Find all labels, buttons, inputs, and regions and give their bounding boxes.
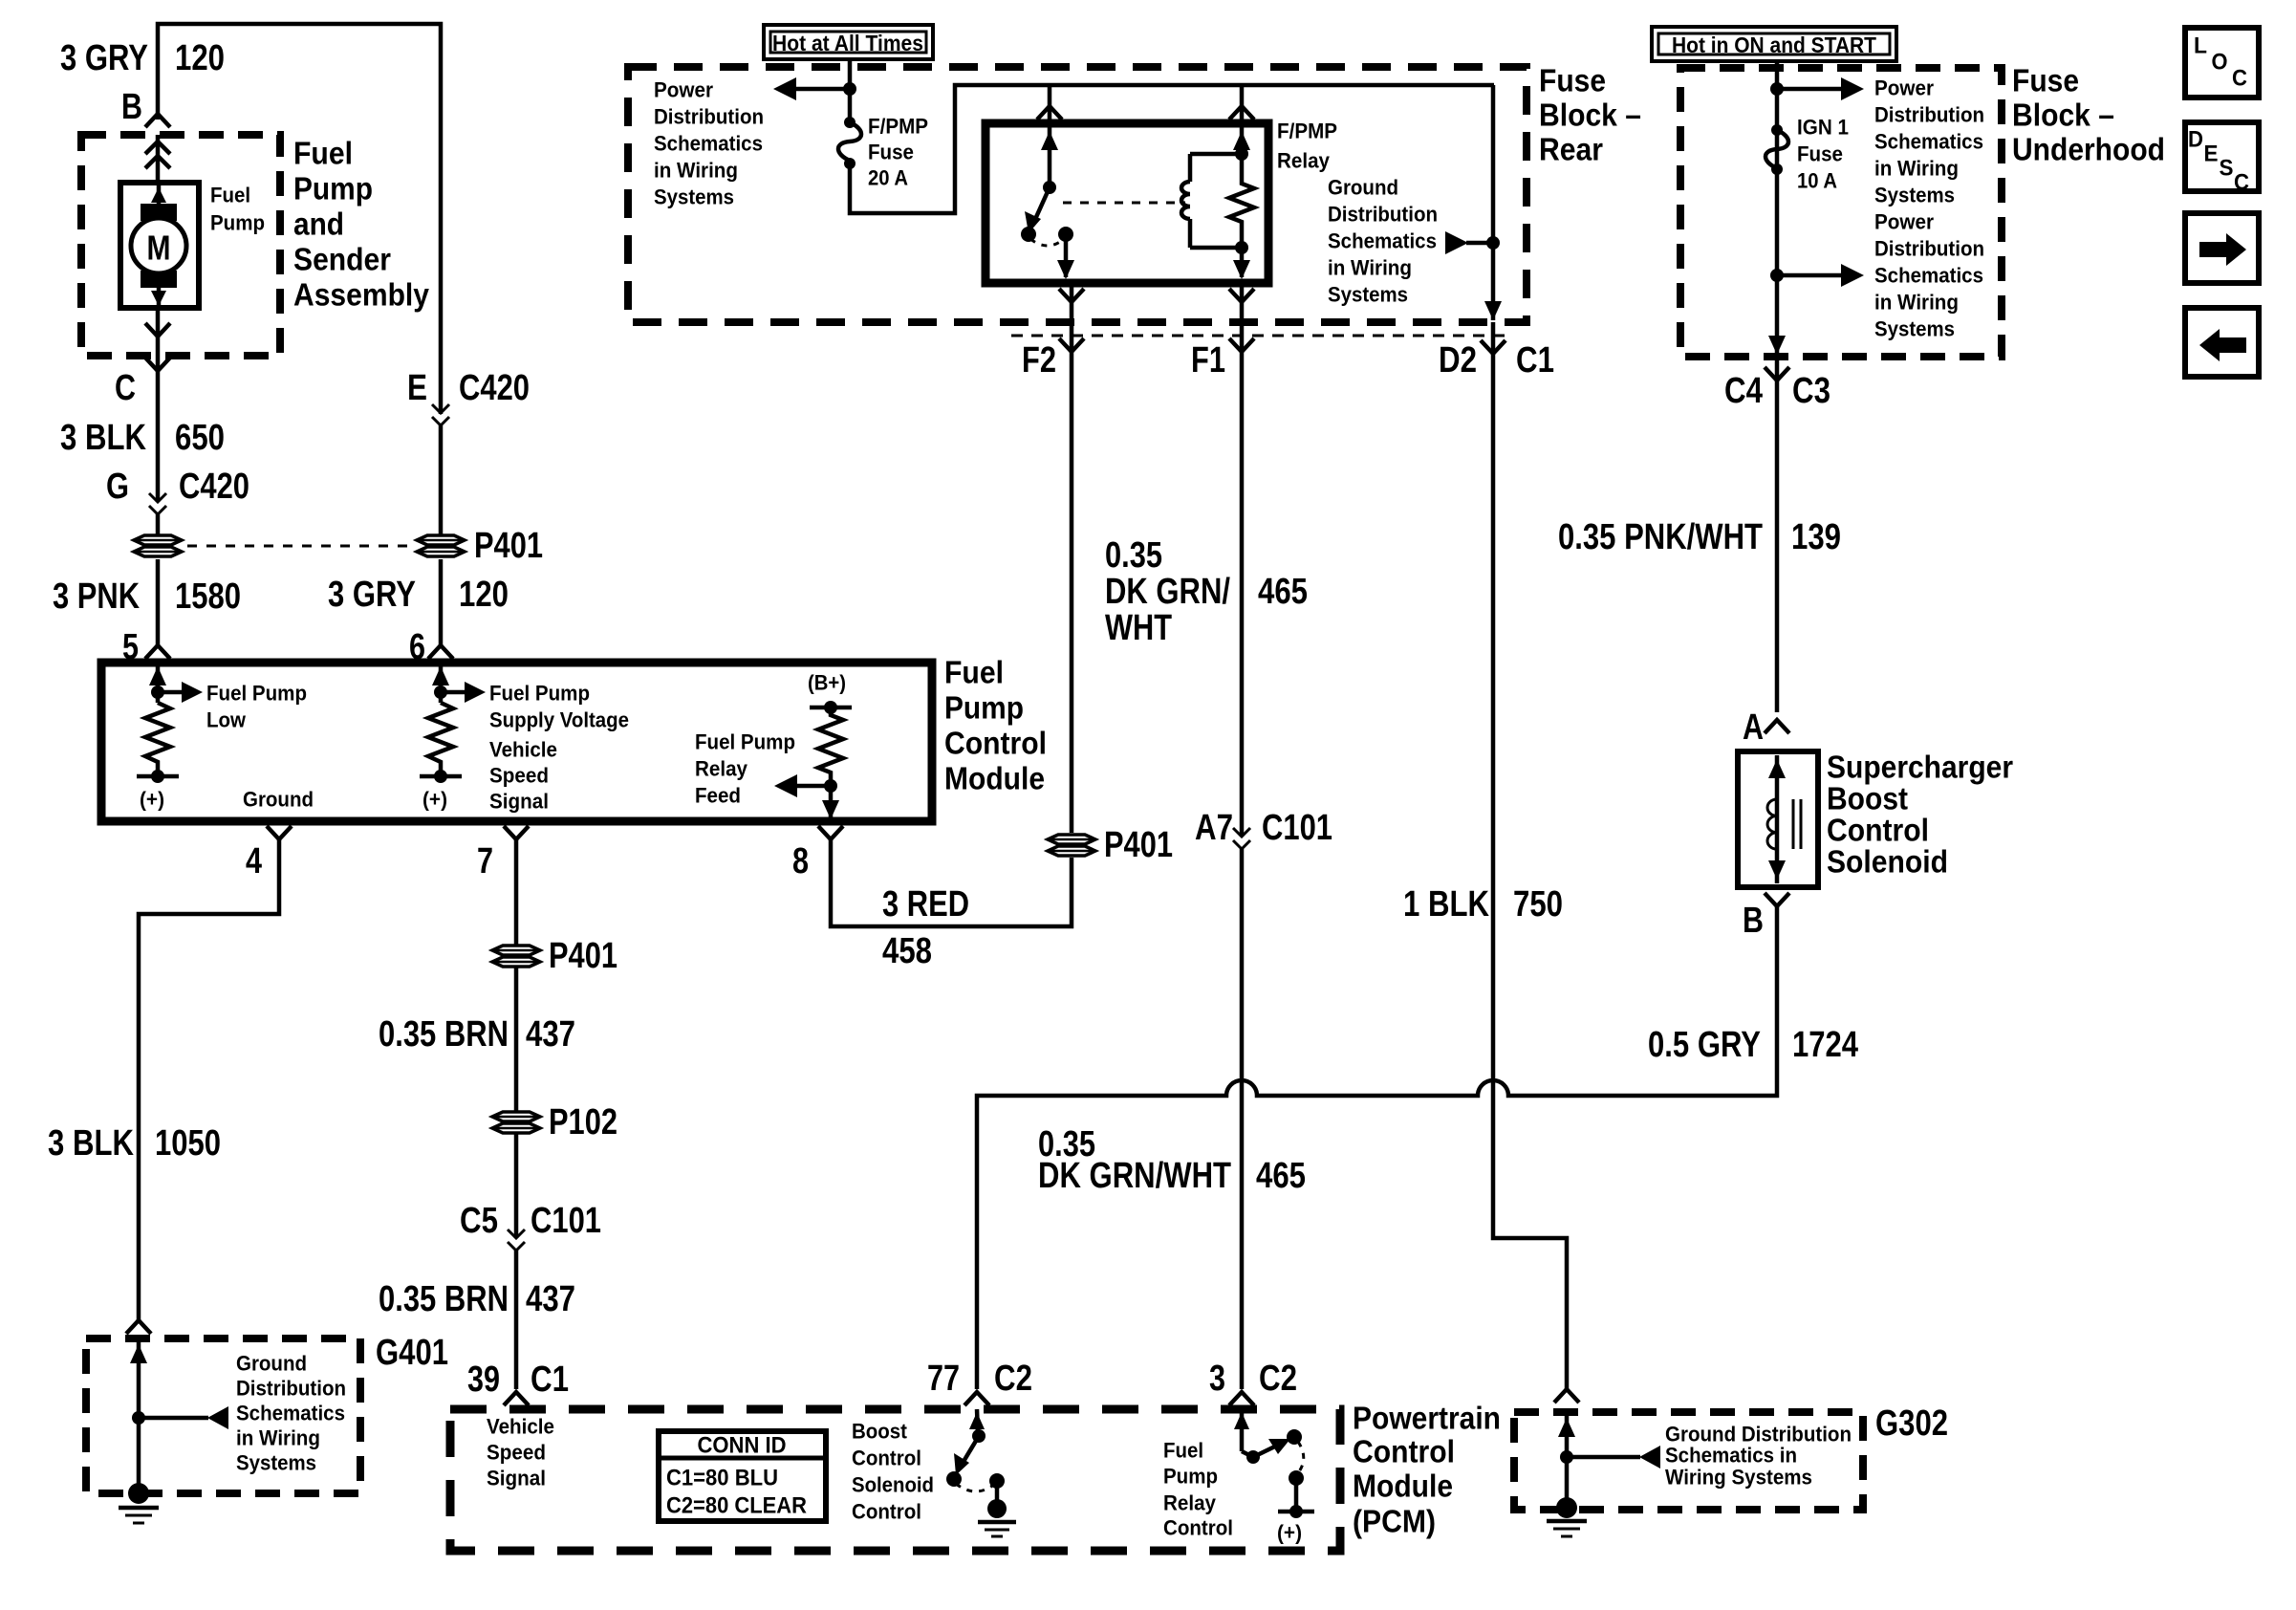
label 0.35 BRN lower	[379, 1279, 509, 1319]
svg-text:Pump: Pump	[1163, 1465, 1218, 1489]
fuse IGN 1 10 A	[1765, 124, 1788, 175]
dashed pair link	[187, 545, 415, 548]
svg-text:Power: Power	[1874, 210, 1934, 234]
svg-text:C2=80 CLEAR: C2=80 CLEAR	[666, 1493, 807, 1519]
svg-text:Distribution: Distribution	[236, 1377, 346, 1401]
relay coil feed pin	[1229, 85, 1254, 154]
svg-text:Low: Low	[206, 708, 247, 732]
connector P102	[492, 1112, 540, 1133]
svg-text:8: 8	[792, 841, 809, 881]
arrow to ground distribution (G302)	[1560, 1446, 1660, 1469]
svg-text:Power: Power	[654, 78, 713, 102]
wire into pump with connector chevrons	[145, 135, 170, 183]
svg-text:G401: G401	[376, 1333, 448, 1373]
svg-text:Fuse: Fuse	[1797, 142, 1843, 166]
svg-text:Boost: Boost	[1827, 781, 1908, 816]
svg-text:Pump: Pump	[944, 690, 1024, 726]
svg-text:1050: 1050	[155, 1123, 221, 1164]
svg-text:P401: P401	[474, 526, 543, 566]
svg-text:Fuse: Fuse	[868, 141, 914, 164]
pin F1	[1191, 283, 1254, 402]
wire 0.35 DK GRN/WHT 465 F1 to PCM 3	[1240, 402, 1245, 1389]
svg-text:(B+): (B+)	[808, 671, 846, 695]
fuse block underhood dashed box	[1680, 68, 2002, 357]
svg-text:Speed: Speed	[489, 764, 549, 788]
svg-text:Relay: Relay	[1277, 149, 1331, 173]
svg-text:D2: D2	[1439, 340, 1477, 381]
wire 3 GRY 120 circuit B (left vertical + top loop to E)	[158, 24, 441, 414]
pin 5 fuel pump low resistor	[137, 663, 203, 812]
label F/PMP Relay	[1277, 120, 1337, 173]
svg-text:39: 39	[467, 1360, 500, 1400]
fuse F/PMP 20 A	[838, 117, 861, 169]
svg-text:Vehicle: Vehicle	[487, 1415, 554, 1439]
wire out of pump	[145, 308, 170, 502]
label 120	[459, 575, 509, 615]
ground G302 dashed box	[1514, 1412, 1863, 1510]
label Ground Distribution Schematics in Wiring Systems (G302)	[1665, 1423, 1852, 1490]
label Fuse Block - Rear	[1539, 63, 1641, 167]
svg-text:C1=80 BLU: C1=80 BLU	[666, 1466, 778, 1491]
svg-text:P102: P102	[549, 1102, 617, 1142]
svg-text:C4: C4	[1724, 371, 1763, 411]
node G C420	[106, 467, 249, 535]
svg-text:Module: Module	[944, 761, 1045, 796]
svg-text:1580: 1580	[175, 577, 241, 617]
svg-text:and: and	[293, 207, 344, 242]
label 3 RED	[882, 884, 969, 925]
svg-text:0.35: 0.35	[1105, 535, 1162, 576]
label Fuel Pump Relay Control	[1163, 1439, 1233, 1540]
back arrow icon box	[2185, 308, 2259, 377]
motor M symbol	[131, 183, 186, 308]
svg-text:Signal: Signal	[489, 790, 549, 814]
label 0.35 DK GRN/WHT lower	[1038, 1124, 1231, 1196]
svg-text:Fuel: Fuel	[293, 136, 353, 171]
svg-text:650: 650	[175, 418, 225, 458]
svg-text:Sender: Sender	[293, 242, 391, 277]
svg-text:B: B	[1743, 901, 1764, 941]
arrow to power distribution 2	[1770, 264, 1864, 287]
label 650	[175, 418, 225, 458]
forward arrow icon box	[2185, 213, 2259, 283]
Hot at All Times callout	[764, 25, 933, 59]
svg-text:C2: C2	[1259, 1359, 1297, 1399]
svg-text:Powertrain: Powertrain	[1353, 1401, 1501, 1436]
svg-text:Distribution: Distribution	[654, 105, 764, 129]
node C5 C101	[460, 1201, 601, 1251]
fuse block rear dashed box	[628, 67, 1527, 322]
svg-text:3 BLK: 3 BLK	[48, 1123, 134, 1164]
wire 3 RED 458 pin8 to relay F2	[831, 402, 1072, 926]
label 458	[882, 931, 932, 971]
svg-text:Systems: Systems	[654, 185, 734, 209]
svg-text:120: 120	[175, 38, 225, 78]
svg-text:465: 465	[1258, 572, 1308, 612]
LOC icon box	[2185, 28, 2259, 98]
relay switch arm	[1021, 181, 1056, 242]
svg-text:Hot at All Times: Hot at All Times	[772, 31, 923, 55]
fuel pump relay driver	[1234, 1409, 1314, 1545]
node B connector	[121, 87, 170, 127]
connector dashed line below fuse block	[1011, 335, 1510, 337]
label Ground Distribution Schematics in Wiring Systems	[1328, 176, 1438, 307]
svg-text:Distribution: Distribution	[1328, 203, 1438, 227]
svg-text:in Wiring: in Wiring	[236, 1426, 320, 1450]
label 1050	[155, 1123, 221, 1164]
pin 6 supply voltage resistor	[420, 663, 486, 812]
svg-text:139: 139	[1791, 517, 1841, 557]
label G302	[1875, 1403, 1948, 1444]
label Supercharger Boost Control Solenoid	[1827, 750, 2013, 880]
svg-text:458: 458	[882, 931, 932, 971]
label Fuel Pump Low	[206, 682, 307, 732]
boost control solenoid driver	[946, 1409, 1016, 1536]
svg-text:D: D	[2188, 127, 2203, 153]
wire ign feed	[1768, 61, 1786, 355]
relay coil link dashed	[1063, 202, 1185, 205]
svg-text:437: 437	[526, 1014, 575, 1055]
label P102	[549, 1102, 617, 1142]
svg-text:C1: C1	[1516, 340, 1554, 381]
wire 3 PNK 1580	[156, 559, 161, 646]
supercharger boost control solenoid box	[1738, 751, 1818, 887]
svg-text:F1: F1	[1191, 340, 1225, 381]
svg-text:Speed: Speed	[487, 1441, 546, 1465]
svg-text:Systems: Systems	[1874, 317, 1955, 341]
relay switch feed pin	[1037, 85, 1062, 187]
pin 3 C2	[1209, 1359, 1297, 1405]
wire 0.5 GRY 1724 solenoid B to PCM 77	[977, 906, 1777, 1389]
svg-text:Distribution: Distribution	[1874, 103, 1984, 127]
label 0.35 BRN upper	[379, 1014, 509, 1055]
wire 0.35 BRN 437 pin7 to PCM 39	[514, 839, 519, 1389]
wire D2 drop inside fuse block	[1484, 85, 1502, 320]
svg-text:Schematics in: Schematics in	[1665, 1444, 1797, 1468]
pin A	[1743, 707, 1789, 748]
svg-text:20 A: 20 A	[868, 166, 908, 190]
svg-text:Wiring Systems: Wiring Systems	[1665, 1466, 1812, 1490]
(B+) relay feed resistor	[774, 671, 852, 822]
svg-text:10 A: 10 A	[1797, 169, 1837, 193]
svg-text:465: 465	[1256, 1156, 1306, 1196]
svg-text:Supply Voltage: Supply Voltage	[489, 708, 629, 732]
svg-text:DK GRN/: DK GRN/	[1105, 572, 1230, 612]
label 3 PNK	[53, 577, 140, 617]
svg-text:437: 437	[526, 1279, 575, 1319]
svg-text:Underhood: Underhood	[2012, 132, 2165, 167]
label 3 BLK	[60, 418, 146, 458]
CONN ID table	[659, 1431, 826, 1521]
svg-text:C: C	[2232, 66, 2247, 92]
arrow to ground distribution (G401)	[132, 1406, 228, 1429]
pin 6	[409, 627, 453, 667]
svg-text:Schematics: Schematics	[1328, 229, 1437, 253]
label 437 upper	[526, 1014, 575, 1055]
relay coil output pin	[1233, 248, 1250, 279]
arrow to power distribution	[773, 77, 856, 100]
node into G401	[126, 1320, 151, 1493]
relay coil suppression resistor	[1229, 147, 1254, 254]
svg-text:120: 120	[459, 575, 509, 615]
ground symbol G302	[1547, 1497, 1587, 1536]
label 0.35 PNK/WHT	[1558, 517, 1763, 557]
pin C4 / C3	[1724, 357, 1830, 712]
svg-text:Boost: Boost	[852, 1420, 908, 1444]
svg-text:C3: C3	[1792, 371, 1830, 411]
label 750	[1513, 884, 1563, 925]
powertrain control module dashed box	[450, 1409, 1340, 1551]
svg-text:in Wiring: in Wiring	[1874, 291, 1959, 315]
svg-text:Control: Control	[852, 1500, 921, 1524]
wire 1 BLK 750 C1 to G302	[1493, 402, 1567, 1389]
svg-text:1724: 1724	[1792, 1025, 1858, 1065]
label Fuse Block - Underhood	[2012, 63, 2165, 167]
svg-text:Distribution: Distribution	[1874, 237, 1984, 261]
svg-text:Vehicle: Vehicle	[489, 738, 557, 762]
wire from hot feed	[848, 59, 853, 122]
svg-text:0.35 PNK/WHT: 0.35 PNK/WHT	[1558, 517, 1763, 557]
svg-text:WHT: WHT	[1105, 608, 1172, 648]
svg-text:Systems: Systems	[1328, 283, 1408, 307]
svg-text:F/PMP: F/PMP	[1277, 120, 1337, 143]
label F/PMP Fuse 20 A	[868, 115, 928, 190]
svg-text:Schematics: Schematics	[236, 1402, 345, 1425]
label P401	[549, 936, 617, 976]
svg-text:3 GRY: 3 GRY	[328, 575, 416, 615]
label G401	[376, 1333, 448, 1373]
svg-text:E: E	[407, 368, 427, 408]
svg-text:P401: P401	[1104, 825, 1173, 865]
svg-text:C1: C1	[531, 1360, 569, 1400]
svg-text:Block –: Block –	[2012, 98, 2114, 133]
svg-text:3 GRY: 3 GRY	[60, 38, 148, 78]
svg-text:Pump: Pump	[210, 211, 265, 235]
svg-text:C2: C2	[994, 1359, 1032, 1399]
label IGN 1 Fuse 10 A	[1797, 116, 1849, 193]
label Fuel Pump Relay Feed	[695, 730, 795, 808]
label Fuel Pump Supply Voltage	[489, 682, 629, 732]
node A7 C101	[1195, 808, 1332, 849]
fuel pump motor box	[120, 183, 199, 308]
ground G401 dashed box	[86, 1338, 360, 1493]
pin 8	[792, 826, 843, 881]
svg-text:0.5 GRY: 0.5 GRY	[1648, 1025, 1761, 1065]
svg-text:Solenoid: Solenoid	[1827, 844, 1948, 880]
svg-text:E: E	[2204, 141, 2219, 167]
svg-text:Ground: Ground	[1328, 176, 1398, 200]
svg-text:Fuse: Fuse	[2012, 63, 2079, 98]
label 120	[175, 38, 225, 78]
label 0.35 DK GRN/WHT upper	[1105, 535, 1230, 648]
svg-text:A7: A7	[1195, 808, 1233, 848]
label Power Distribution Schematics in Wiring Systems	[654, 78, 764, 209]
relay contact and dashed swing	[1030, 227, 1074, 279]
svg-text:Module: Module	[1353, 1469, 1453, 1504]
node into G302	[1554, 1389, 1579, 1508]
svg-text:L: L	[2194, 33, 2207, 59]
svg-text:Control: Control	[1163, 1516, 1233, 1540]
svg-text:G: G	[106, 467, 129, 507]
arrow ground distribution to D2 wire	[1445, 231, 1500, 254]
label Fuel Pump Control Module	[944, 655, 1047, 796]
label 3 GRY	[60, 38, 148, 78]
svg-text:Ground: Ground	[243, 788, 314, 812]
relay coil	[1181, 154, 1242, 248]
svg-text:Relay: Relay	[695, 757, 748, 781]
label Powertrain Control Module (PCM)	[1353, 1401, 1501, 1539]
svg-text:C101: C101	[531, 1201, 601, 1241]
label 0.5 GRY	[1648, 1025, 1761, 1065]
pin B	[1743, 893, 1789, 941]
svg-text:4: 4	[246, 841, 262, 881]
svg-text:Fuel Pump: Fuel Pump	[695, 730, 795, 754]
svg-text:Supercharger: Supercharger	[1827, 750, 2013, 785]
svg-text:Feed: Feed	[695, 784, 741, 808]
wire 3 GRY 120 lower	[439, 559, 444, 646]
svg-text:77: 77	[927, 1359, 960, 1399]
svg-text:F2: F2	[1022, 340, 1056, 381]
DESC icon box	[2185, 122, 2259, 196]
label P401	[474, 526, 543, 566]
svg-text:C: C	[2234, 170, 2249, 196]
wire 3 BLK 1050 pin4 to G401	[139, 839, 279, 1320]
svg-text:B: B	[121, 87, 142, 127]
svg-text:Fuel: Fuel	[210, 184, 250, 207]
svg-text:(PCM): (PCM)	[1353, 1504, 1436, 1539]
label P401	[1104, 825, 1173, 865]
connector P401 (speed signal)	[492, 946, 540, 967]
label Boost Control Solenoid Control	[852, 1420, 934, 1524]
pin 4	[246, 826, 292, 881]
label 1724	[1792, 1025, 1858, 1065]
label 3 BLK	[48, 1123, 134, 1164]
ground symbol G401	[119, 1483, 159, 1523]
svg-text:3 BLK: 3 BLK	[60, 418, 146, 458]
svg-text:Fuel: Fuel	[1163, 1439, 1203, 1463]
label 1 BLK	[1403, 884, 1489, 925]
svg-text:Fuel Pump: Fuel Pump	[489, 682, 590, 706]
svg-text:G302: G302	[1875, 1403, 1948, 1444]
svg-text:0.35 BRN: 0.35 BRN	[379, 1279, 509, 1319]
svg-text:C420: C420	[459, 368, 530, 408]
label Vehicle Speed Signal	[489, 738, 557, 814]
svg-text:C420: C420	[179, 467, 249, 507]
svg-text:(+): (+)	[422, 788, 447, 812]
connector P401 left half	[134, 535, 182, 556]
svg-text:Fuel: Fuel	[944, 655, 1004, 690]
pin 77 C2	[927, 1359, 1032, 1405]
svg-text:Control: Control	[852, 1447, 921, 1470]
label 3 GRY	[328, 575, 416, 615]
Hot in ON and START callout	[1652, 27, 1896, 61]
svg-text:Fuel Pump: Fuel Pump	[206, 682, 307, 706]
svg-text:Assembly: Assembly	[293, 277, 430, 313]
label 465 lower	[1256, 1156, 1306, 1196]
label 437 lower	[526, 1279, 575, 1319]
svg-text:CONN ID: CONN ID	[698, 1433, 787, 1459]
pin D2 / C1	[1439, 322, 1554, 402]
connector P401 right half	[417, 535, 465, 556]
label 139	[1791, 517, 1841, 557]
svg-text:(+): (+)	[140, 788, 164, 812]
svg-text:(+): (+)	[1277, 1521, 1302, 1545]
label Fuel Pump and Sender Assembly	[293, 136, 430, 313]
svg-text:C5: C5	[460, 1201, 498, 1241]
svg-text:Control: Control	[1827, 813, 1929, 848]
pin F2	[1022, 283, 1084, 402]
svg-text:3: 3	[1209, 1359, 1225, 1399]
svg-text:in Wiring: in Wiring	[1328, 256, 1412, 280]
label 1580	[175, 577, 241, 617]
fuel pump and sender assembly dashed box	[81, 135, 280, 356]
svg-text:F/PMP: F/PMP	[868, 115, 928, 139]
label Vehicle Speed Signal (PCM)	[487, 1415, 554, 1490]
arrow to power distribution 1	[1770, 77, 1864, 100]
svg-text:Pump: Pump	[293, 171, 373, 207]
svg-text:O: O	[2212, 50, 2228, 76]
svg-text:Fuse: Fuse	[1539, 63, 1606, 98]
svg-text:Relay: Relay	[1163, 1491, 1217, 1515]
svg-text:in Wiring: in Wiring	[1874, 157, 1959, 181]
svg-text:DK GRN/WHT: DK GRN/WHT	[1038, 1156, 1231, 1196]
F/PMP relay box	[986, 123, 1268, 283]
svg-text:S: S	[2220, 156, 2234, 182]
svg-text:Solenoid: Solenoid	[852, 1473, 934, 1497]
fuel pump control module box	[101, 663, 932, 821]
node E C420	[407, 368, 530, 535]
pin 39 C1	[467, 1360, 569, 1405]
svg-text:IGN 1: IGN 1	[1797, 116, 1849, 140]
svg-text:A: A	[1743, 707, 1764, 748]
connector P401 (relay feed)	[1048, 835, 1095, 856]
svg-text:in Wiring: in Wiring	[654, 159, 738, 183]
svg-text:C: C	[115, 368, 136, 408]
svg-text:Control: Control	[1353, 1434, 1455, 1469]
svg-text:P401: P401	[549, 936, 617, 976]
svg-text:3 RED: 3 RED	[882, 884, 969, 925]
svg-text:Schematics: Schematics	[654, 132, 763, 156]
svg-text:Rear: Rear	[1539, 132, 1603, 167]
wire fuse to bus	[850, 85, 1494, 213]
svg-text:Schematics: Schematics	[1874, 130, 1983, 154]
svg-text:Systems: Systems	[1874, 184, 1955, 207]
svg-text:3 PNK: 3 PNK	[53, 577, 140, 617]
svg-text:750: 750	[1513, 884, 1563, 925]
label 465 upper	[1258, 572, 1308, 612]
label Ground Distribution Schematics in Wiring Systems (G401)	[236, 1352, 346, 1475]
pin 7	[477, 826, 529, 881]
svg-text:Power: Power	[1874, 76, 1934, 100]
solenoid coil symbol	[1767, 755, 1801, 883]
svg-text:Signal: Signal	[487, 1467, 546, 1490]
svg-text:Control: Control	[944, 726, 1047, 761]
svg-text:1 BLK: 1 BLK	[1403, 884, 1489, 925]
svg-text:Block –: Block –	[1539, 98, 1641, 133]
label Power Distribution Schematics in Wiring Systems (x2)	[1874, 76, 1984, 341]
node C	[115, 368, 136, 408]
svg-text:7: 7	[477, 841, 493, 881]
label Fuel Pump (inside assembly)	[210, 184, 265, 235]
svg-text:M: M	[147, 228, 171, 268]
svg-text:Ground: Ground	[236, 1352, 307, 1376]
label Ground	[243, 788, 314, 812]
pin 5	[122, 627, 170, 667]
svg-text:Systems: Systems	[236, 1451, 316, 1475]
svg-text:0.35 BRN: 0.35 BRN	[379, 1014, 509, 1055]
svg-text:Hot in ON and START: Hot in ON and START	[1672, 33, 1876, 57]
svg-text:C101: C101	[1262, 808, 1332, 848]
